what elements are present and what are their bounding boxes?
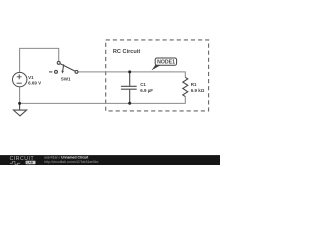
svg-text:C1: C1 — [140, 82, 146, 87]
CircuitLab logo LAB — [26, 161, 36, 165]
wire V1 top loop to switch — [20, 48, 59, 72]
svg-text:LAB: LAB — [27, 161, 34, 165]
wire V1 bottom — [19, 87, 21, 104]
svg-text:R1: R1 — [191, 82, 197, 87]
resistor R1 — [183, 77, 188, 96]
svg-text:NODE1: NODE1 — [157, 60, 175, 66]
wire bottom rail — [20, 97, 186, 104]
switch arrow head — [61, 71, 64, 74]
switch SW1 — [55, 61, 78, 73]
footer bar — [0, 155, 220, 165]
dashed subcircuit box "RC Circuit" — [106, 40, 209, 111]
svg-text:RC Circuit: RC Circuit — [113, 49, 140, 55]
svg-text:6.9 µF: 6.9 µF — [140, 88, 153, 93]
svg-text:6.69 V: 6.69 V — [28, 81, 41, 86]
wire top rail: switch to resistor — [78, 72, 185, 77]
svg-text:V1: V1 — [28, 75, 34, 80]
switch SW1 left stub — [49, 71, 52, 73]
CircuitLab logo waveform — [10, 162, 20, 165]
svg-text:SW1: SW1 — [61, 76, 71, 81]
node flag NODE1 — [152, 58, 177, 70]
junction dot capacitor bottom — [128, 102, 131, 105]
svg-text:6.9 kΩ: 6.9 kΩ — [191, 88, 205, 93]
svg-text:http://circuitlab.com/c/67fde3: http://circuitlab.com/c/67fde34ae5bv — [44, 160, 99, 164]
junction dot V1/ground — [18, 102, 21, 105]
junction dot capacitor top — [128, 70, 131, 73]
ground — [14, 103, 27, 116]
capacitor C1 — [121, 72, 137, 103]
voltage source V1 — [13, 72, 27, 86]
